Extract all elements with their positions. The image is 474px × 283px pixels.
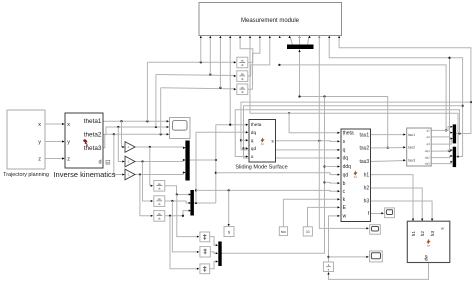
svg-text:theta1: theta1: [84, 118, 102, 125]
svg-text:tau3: tau3: [359, 159, 369, 165]
svg-text:theta: theta: [251, 122, 262, 128]
svg-text:dq3: dq3: [425, 162, 430, 166]
svg-text:z: z: [67, 157, 70, 163]
svg-text:du: du: [158, 182, 162, 186]
svg-text:dq1: dq1: [425, 149, 430, 153]
svg-text:Inverse kinematics: Inverse kinematics: [53, 170, 115, 179]
svg-text:q3: q3: [426, 142, 430, 146]
svg-text:z: z: [38, 157, 41, 163]
svg-text:theta2: theta2: [84, 131, 102, 138]
svg-text:fcn: fcn: [427, 243, 431, 247]
svg-text:y: y: [67, 140, 70, 146]
svg-text:tau1: tau1: [408, 133, 415, 137]
svg-text:du: du: [241, 85, 245, 89]
svg-text:x: x: [38, 122, 41, 128]
svg-text:dq: dq: [343, 156, 349, 162]
svg-text:du: du: [241, 72, 245, 76]
svg-text:dt: dt: [158, 187, 161, 191]
svg-text:dt: dt: [158, 217, 161, 221]
svg-text:q1: q1: [426, 129, 430, 133]
svg-text:dt: dt: [241, 90, 244, 94]
svg-text:du: du: [158, 197, 162, 201]
svg-text:500: 500: [281, 230, 286, 234]
svg-text:dt: dt: [241, 77, 244, 81]
svg-text:theta3: theta3: [84, 145, 102, 152]
svg-text:s: s: [228, 229, 230, 234]
svg-text:dt: dt: [241, 63, 244, 67]
svg-text:h1: h1: [364, 172, 370, 178]
svg-text:Sliding Mode Surface: Sliding Mode Surface: [235, 165, 287, 171]
svg-text:dw: dw: [423, 254, 428, 261]
svg-text:qd: qd: [343, 172, 349, 178]
svg-text:u: u: [251, 155, 254, 160]
svg-text:q: q: [251, 139, 254, 144]
svg-text:tau2: tau2: [408, 146, 415, 150]
svg-text:d: d: [98, 159, 101, 165]
svg-text:q: q: [343, 148, 346, 154]
svg-text:h2: h2: [364, 186, 370, 192]
svg-text:w: w: [343, 214, 347, 220]
svg-text:tau3: tau3: [408, 159, 415, 163]
svg-text:Measurement module: Measurement module: [241, 18, 300, 24]
svg-text:h1: h1: [411, 231, 417, 237]
svg-text:fcn: fcn: [261, 142, 265, 146]
svg-text:h3: h3: [430, 231, 436, 237]
svg-text:10: 10: [306, 230, 310, 234]
svg-text:b: b: [343, 181, 346, 187]
svg-text:x: x: [67, 122, 70, 128]
svg-text:h2: h2: [420, 231, 426, 237]
svg-text:tau1: tau1: [359, 132, 369, 138]
svg-text:dq2: dq2: [425, 156, 430, 160]
svg-text:h3: h3: [364, 199, 370, 205]
svg-text:y: y: [38, 140, 41, 146]
svg-text:dq: dq: [251, 130, 257, 136]
svg-text:s: s: [440, 228, 445, 230]
svg-text:dt: dt: [158, 202, 161, 206]
svg-text:du: du: [158, 212, 162, 216]
svg-text:Trajectory planning: Trajectory planning: [3, 172, 49, 178]
svg-text:theta: theta: [343, 131, 354, 137]
svg-text:du: du: [241, 59, 245, 63]
svg-text:ddq: ddq: [343, 164, 352, 170]
svg-text:qd: qd: [251, 146, 257, 152]
svg-text:tau2: tau2: [359, 146, 369, 152]
svg-text:q2: q2: [426, 135, 430, 139]
svg-text:fcn: fcn: [354, 175, 358, 179]
